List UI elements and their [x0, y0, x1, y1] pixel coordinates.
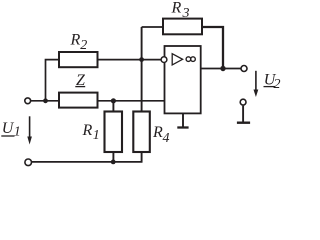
wire Z right to op-amp non-inverting input: [98, 100, 165, 102]
svg-text:2: 2: [80, 38, 87, 53]
impedance Z: [59, 93, 98, 108]
op-amp ground bar: [177, 126, 188, 128]
resistor R4: [133, 112, 150, 153]
label U1 underline: [1, 135, 14, 137]
input terminal top-left: [25, 98, 31, 104]
right ground terminal: [240, 99, 246, 105]
wire R1 top stub: [112, 101, 114, 112]
bottom rail wire: [32, 161, 143, 163]
svg-text:2: 2: [274, 77, 281, 92]
resistor R1: [105, 112, 123, 153]
resistor R3: [163, 19, 202, 35]
svg-text:Z: Z: [76, 72, 86, 89]
op-amp U1 body: [165, 46, 201, 113]
op-amp inverting input circle: [161, 57, 167, 63]
svg-text:4: 4: [163, 131, 170, 146]
op-amp ground stub: [182, 113, 184, 127]
input terminal bottom-left: [25, 159, 32, 166]
svg-text:R: R: [82, 122, 93, 139]
node C junction dot (R1 tap): [111, 98, 116, 103]
wire R2 right to node B and op-amp inverting input: [98, 59, 163, 61]
svg-text:1: 1: [14, 124, 21, 139]
svg-text:R: R: [152, 124, 163, 141]
wire node B to R3 left: [142, 26, 163, 28]
label Z underline: [75, 86, 85, 88]
wire node A up to R2 left: [46, 60, 60, 101]
right ground stub: [242, 106, 244, 123]
U2 arrow line: [255, 71, 257, 91]
wire R1 bottom stub: [112, 152, 114, 162]
U2 arrowhead: [254, 90, 259, 98]
U1 arrow line: [29, 116, 31, 138]
wire node B vertical (R3 top to R4 top, crosses non-inv wire): [141, 27, 143, 112]
label U2 underline: [264, 86, 276, 88]
svg-text:1: 1: [93, 128, 100, 143]
wire input terminal to node A: [31, 100, 59, 102]
node A junction dot: [43, 98, 48, 103]
op-amp infinity symbol: [186, 57, 191, 62]
svg-text:3: 3: [182, 6, 190, 21]
svg-text:R: R: [70, 31, 81, 48]
svg-text:R: R: [171, 0, 182, 16]
output node junction dot: [220, 66, 225, 71]
right ground bar: [237, 121, 250, 123]
op-amp triangle symbol: [172, 54, 182, 65]
resistor R2: [59, 52, 98, 67]
output terminal: [241, 66, 247, 72]
wire R3 right down to output node: [202, 27, 223, 69]
op-amp output wire: [201, 68, 241, 70]
wire R4 bottom stub: [141, 152, 143, 162]
node B junction dot: [139, 57, 144, 62]
U1 arrowhead: [27, 137, 32, 145]
junction dot R1 bottom: [111, 160, 116, 165]
